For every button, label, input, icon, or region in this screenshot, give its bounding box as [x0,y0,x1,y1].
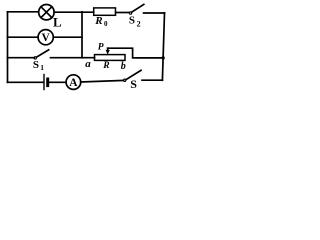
svg-text:P: P [98,42,104,52]
svg-text:S: S [129,15,135,27]
svg-text:R: R [94,15,102,27]
svg-text:1: 1 [40,63,44,72]
svg-text:2: 2 [137,20,141,29]
svg-text:S: S [33,59,39,71]
svg-text:L: L [53,14,62,29]
svg-text:a: a [85,58,91,70]
svg-text:0: 0 [104,20,108,28]
svg-text:S: S [130,77,137,91]
svg-text:R: R [102,61,109,71]
svg-text:A: A [69,77,78,89]
svg-text:V: V [42,32,51,44]
svg-text:b: b [121,61,126,72]
